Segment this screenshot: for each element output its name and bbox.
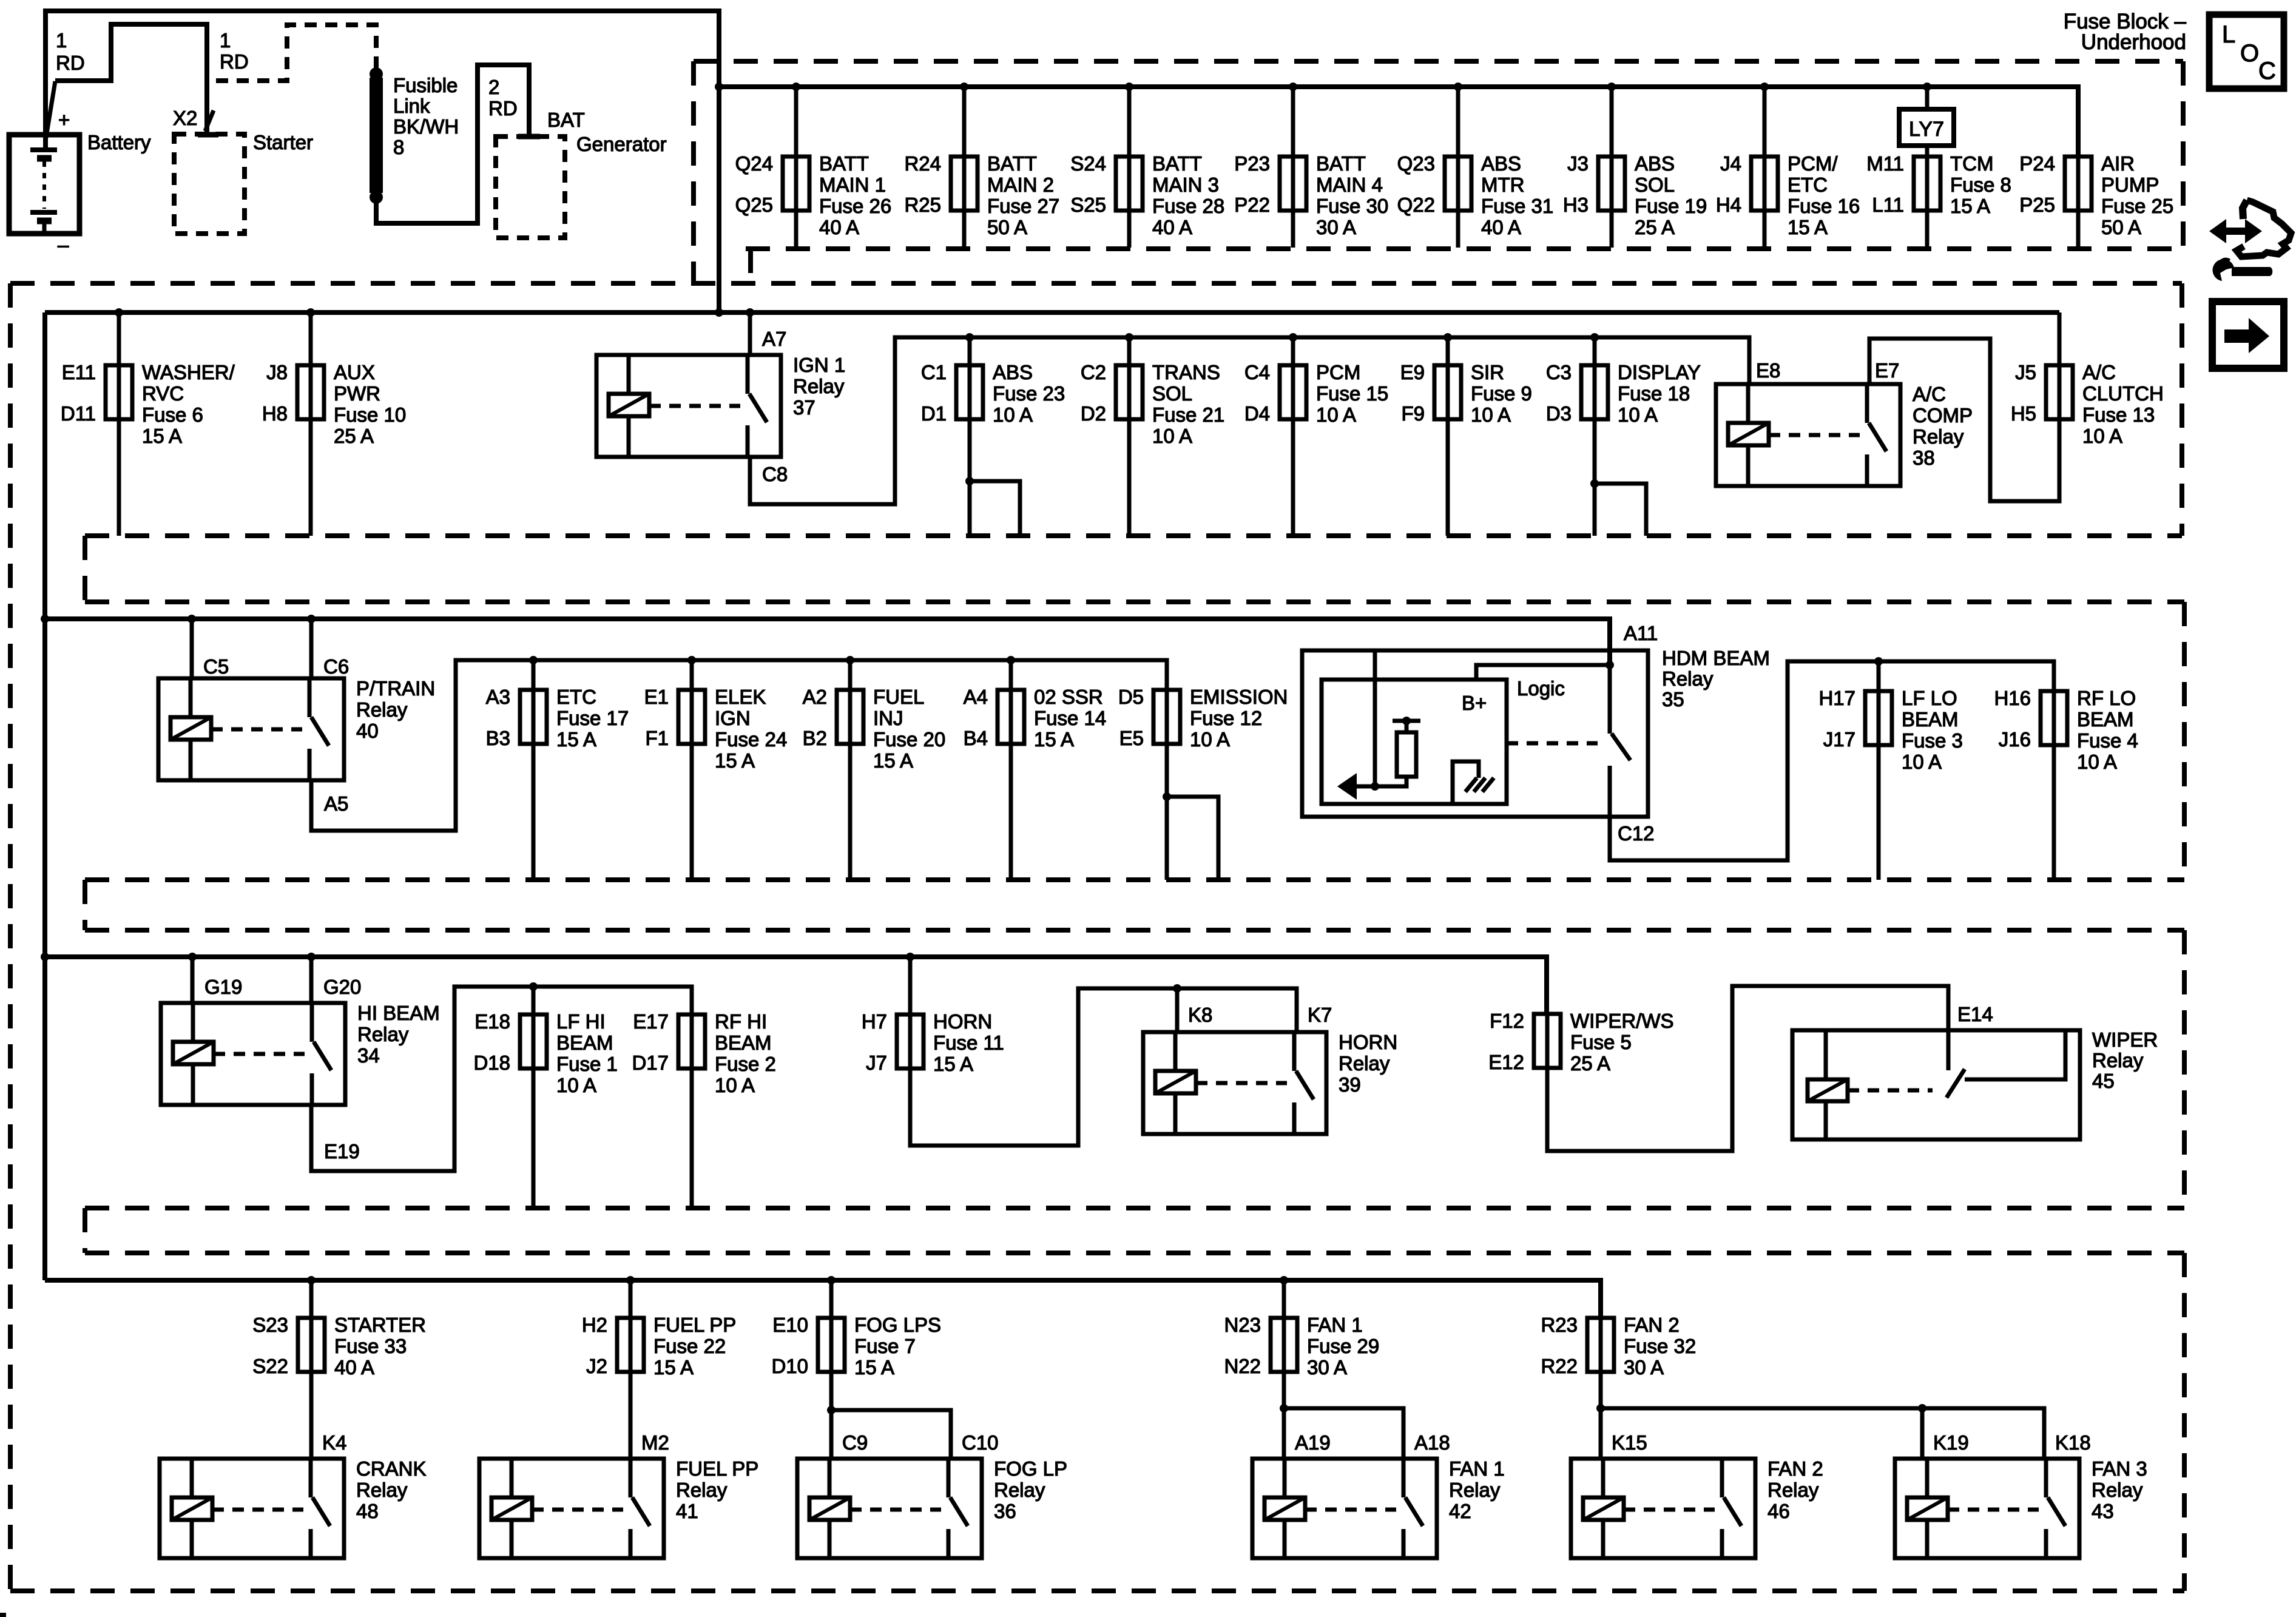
- svg-text:Fuse 2: Fuse 2: [715, 1053, 776, 1075]
- svg-text:FAN 1: FAN 1: [1307, 1314, 1363, 1336]
- svg-text:P22: P22: [1234, 194, 1270, 216]
- svg-text:HI BEAM: HI BEAM: [357, 1002, 440, 1024]
- junction row4 bus at G19: [188, 953, 197, 961]
- wire: A/C COMP relay E7 to Fuse 13 H5: [1869, 339, 2059, 501]
- wire: IGN 1 relay C8 output to row2 sub-bus: [750, 337, 1749, 504]
- wire: feed to Fuse 6 WASHER/RVC: [117, 312, 121, 365]
- wire: row3 bus drop to P/TRAIN relay C6: [309, 619, 314, 678]
- fuse Fuse 12 EMISSION: [1118, 686, 1288, 751]
- svg-text:SOL: SOL: [1152, 382, 1192, 405]
- svg-text:25 A: 25 A: [1635, 216, 1675, 238]
- svg-text:C4: C4: [1244, 361, 1270, 383]
- junction row3 bus at C6: [307, 615, 316, 623]
- svg-text:40 A: 40 A: [1152, 216, 1192, 238]
- wire: HI BEAM relay E19 output to row4 sub-bus: [311, 987, 692, 1171]
- fuse Fuse 26 BATT MAIN 1: [735, 152, 892, 238]
- svg-text:Relay: Relay: [2092, 1049, 2144, 1072]
- svg-text:BEAM: BEAM: [715, 1031, 772, 1054]
- fuse Fuse 11 HORN: [862, 1010, 1004, 1075]
- wire: row3 bus drop to P/TRAIN relay C5: [190, 619, 194, 678]
- label: Fuse Block - Underhood: [2064, 10, 2187, 54]
- svg-text:Starter: Starter: [253, 131, 313, 154]
- wire: battery positive to starter, 1 RD: [46, 24, 218, 141]
- svg-text:K19: K19: [1933, 1431, 1969, 1454]
- wire: row5 bus drop to Fuse 29 FAN 1: [1282, 1280, 1286, 1318]
- wire: Fuse 21 TRANS SOL output through boundary: [1127, 419, 1132, 536]
- relay FOG LP Relay 36: [797, 1457, 1067, 1558]
- wire: Fuse 18 DISPLAY output through boundary: [1593, 419, 1597, 536]
- svg-text:RD: RD: [220, 50, 249, 73]
- svg-text:ETC: ETC: [556, 686, 596, 708]
- wire: Fuse 10 AUX PWR output through boundary: [309, 419, 313, 536]
- junction row3 sub-bus at Fuse 20 FUEL INJ: [846, 656, 854, 664]
- dashed boundary: row3-row4 left connector: [83, 880, 87, 930]
- fuse Fuse 18 DISPLAY: [1546, 361, 1701, 426]
- svg-text:WIPER/WS: WIPER/WS: [1570, 1010, 1674, 1032]
- wire: A11 to logic module: [1476, 665, 1610, 680]
- svg-text:39: 39: [1339, 1073, 1361, 1096]
- svg-text:15 A: 15 A: [653, 1356, 694, 1379]
- svg-text:D2: D2: [1081, 402, 1106, 425]
- svg-text:E12: E12: [1488, 1051, 1524, 1073]
- wire: Fuse 9 SIR output through boundary: [1446, 419, 1450, 536]
- svg-text:CLUTCH: CLUTCH: [2082, 382, 2164, 405]
- wire: drop to FAN 3 relay K19: [1920, 1408, 1925, 1459]
- svg-text:15 A: 15 A: [1788, 216, 1828, 238]
- svg-text:A5: A5: [324, 792, 348, 815]
- wire: Fuse 23 output branch: [970, 481, 1020, 536]
- wire: feed to Fuse 9 SIR: [1446, 337, 1450, 365]
- svg-text:Relay: Relay: [994, 1479, 1045, 1501]
- svg-text:MAIN 4: MAIN 4: [1316, 174, 1383, 196]
- svg-text:50 A: 50 A: [987, 216, 1027, 238]
- svg-text:A4: A4: [964, 686, 988, 708]
- wire: branch to FOG LP relay C10: [831, 1410, 951, 1459]
- svg-text:BK/WH: BK/WH: [393, 115, 459, 138]
- svg-text:02 SSR: 02 SSR: [1034, 686, 1103, 708]
- svg-text:10 A: 10 A: [993, 403, 1033, 426]
- svg-text:Fuse 22: Fuse 22: [653, 1335, 726, 1357]
- svg-text:40 A: 40 A: [819, 216, 859, 238]
- svg-text:Fuse 30: Fuse 30: [1316, 195, 1388, 217]
- relay FAN 3 Relay 43: [1895, 1457, 2147, 1558]
- junction low-beam bus at Fuse 3: [1874, 657, 1883, 666]
- dashed boundary: fuse block row1 left edge: [691, 61, 696, 283]
- svg-text:Fuse 19: Fuse 19: [1635, 195, 1707, 217]
- svg-text:H2: H2: [582, 1314, 607, 1336]
- svg-text:10 A: 10 A: [1190, 728, 1230, 751]
- wire: battery feed box outline (top and right edges): [46, 11, 719, 312]
- svg-text:STARTER: STARTER: [334, 1314, 426, 1336]
- dashed boundary: row3 right edge: [2182, 602, 2187, 880]
- wire: row2 bus drop to Fuse 13 A/C CLUTCH: [2058, 312, 2062, 365]
- junction row2 bus at IGN 1 relay: [746, 308, 754, 317]
- HDM relay B+ feed line with left arrow: [1337, 650, 1379, 800]
- wire: feed to Fuse 15 PCM: [1291, 337, 1295, 365]
- svg-text:WASHER/: WASHER/: [142, 361, 235, 383]
- svg-text:15 A: 15 A: [715, 749, 755, 772]
- fuse Fuse 23 ABS: [921, 361, 1065, 426]
- relay HI BEAM Relay 34: [161, 1002, 440, 1105]
- svg-text:ABS: ABS: [993, 361, 1033, 383]
- svg-text:H7: H7: [862, 1010, 887, 1033]
- icon: arrow continuation box: [2212, 302, 2284, 368]
- wire: Fuse 3 output through boundary: [1877, 745, 1881, 880]
- svg-text:M2: M2: [641, 1431, 669, 1454]
- relay FAN 1 Relay 42: [1252, 1457, 1505, 1558]
- svg-text:E10: E10: [772, 1314, 808, 1336]
- svg-text:Fuse 10: Fuse 10: [334, 403, 406, 426]
- svg-text:K18: K18: [2055, 1431, 2091, 1454]
- relay HORN Relay 39: [1143, 1031, 1397, 1134]
- svg-text:Fuse 7: Fuse 7: [854, 1335, 916, 1357]
- junction row3 sub-bus at Fuse 24 ELEK IGN: [687, 656, 696, 664]
- svg-text:Relay: Relay: [356, 1479, 408, 1501]
- fuse Fuse 31 ABS MTR: [1397, 152, 1554, 238]
- junction on row1 bus at Fuse 19 ABS SOL: [1607, 83, 1616, 91]
- svg-text:J4: J4: [1720, 152, 1741, 175]
- fuse Fuse 8 TCM: [1866, 152, 2011, 217]
- svg-text:Fuse 28: Fuse 28: [1152, 195, 1224, 217]
- svg-text:15 A: 15 A: [854, 1356, 894, 1379]
- junction A11 inside HDM BEAM relay: [1606, 661, 1614, 669]
- svg-text:X2: X2: [173, 107, 197, 129]
- wire: row4 bus drop to Fuse 11 HORN: [908, 957, 913, 1014]
- junction below Fuse 12: [1163, 792, 1171, 801]
- svg-text:43: 43: [2092, 1500, 2114, 1522]
- fuse Fuse 16 PCM/ETC: [1716, 152, 1860, 238]
- junction row4 sub-bus at Fuse 1: [529, 982, 538, 991]
- svg-text:L11: L11: [1872, 194, 1904, 216]
- icon: LOC reference box: [2209, 15, 2284, 89]
- svg-text:FAN 2: FAN 2: [1624, 1314, 1680, 1336]
- svg-text:H3: H3: [1563, 194, 1589, 216]
- wire: branch to FAN 1 relay A18: [1284, 1408, 1403, 1459]
- svg-text:Relay: Relay: [1662, 667, 1714, 690]
- svg-text:A18: A18: [1414, 1431, 1450, 1454]
- junction row3 bus at C5: [187, 615, 196, 623]
- svg-text:J16: J16: [1999, 728, 2031, 751]
- svg-text:H5: H5: [2011, 402, 2036, 425]
- fuse Fuse 22 FUEL PP: [582, 1314, 737, 1379]
- svg-text:D4: D4: [1244, 402, 1270, 425]
- svg-text:P25: P25: [2019, 194, 2055, 216]
- relay HDM BEAM Relay 35: [1302, 647, 1770, 817]
- svg-text:O: O: [2240, 40, 2259, 67]
- svg-text:AIR: AIR: [2101, 152, 2135, 175]
- wire: Fuse 19 ABS SOL output through boundary: [1610, 211, 1614, 248]
- svg-text:E17: E17: [633, 1010, 669, 1033]
- wire: feed to Fuse 21 TRANS SOL: [1127, 337, 1132, 365]
- junction on row1 bus at Fuse 28 BATT MAIN 3: [1125, 83, 1133, 91]
- junction row5 bus at Fuse 7 FOG LPS: [827, 1276, 836, 1284]
- svg-text:G20: G20: [323, 976, 361, 998]
- wire: branch to FAN 3 relay K18: [1601, 1408, 2044, 1459]
- svg-text:BATT: BATT: [987, 152, 1037, 175]
- svg-text:Fuse 1: Fuse 1: [556, 1053, 618, 1075]
- svg-text:Relay: Relay: [1768, 1479, 1819, 1501]
- wire: row4 bus drop to HI BEAM relay G19: [191, 957, 195, 1003]
- svg-text:15 A: 15 A: [873, 749, 913, 772]
- svg-text:ELEK: ELEK: [715, 686, 766, 708]
- wire: Fuse 8 TCM output through boundary: [1925, 211, 1930, 248]
- svg-text:FAN 1: FAN 1: [1449, 1457, 1505, 1480]
- junction on relay-fed sub-bus at Fuse 9 SIR: [1443, 333, 1452, 342]
- fuse Fuse 30 BATT MAIN 4: [1234, 152, 1388, 238]
- svg-text:L: L: [2222, 21, 2235, 48]
- fuse Fuse 13 A/C CLUTCH: [2011, 361, 2164, 447]
- svg-text:MAIN 3: MAIN 3: [1152, 174, 1219, 196]
- svg-text:H4: H4: [1716, 194, 1741, 216]
- wire: Fuse 32 output to FAN 2 relay K15: [1599, 1372, 1603, 1459]
- svg-text:A7: A7: [762, 328, 786, 350]
- junction row3 bus / left bus: [41, 615, 49, 623]
- relay FUEL PP Relay 41: [479, 1457, 758, 1558]
- wire: Fuse 1 output through boundary: [532, 1068, 536, 1206]
- svg-text:Q23: Q23: [1397, 152, 1435, 175]
- svg-text:A11: A11: [1624, 622, 1658, 644]
- junction row5 bus at Fuse 22 FUEL PP: [626, 1276, 635, 1284]
- wire: feed to Fuse 23 ABS: [968, 337, 972, 365]
- svg-text:37: 37: [793, 396, 815, 419]
- svg-text:D11: D11: [61, 402, 96, 425]
- dashed boundary: row4 right edge: [2182, 930, 2187, 1208]
- svg-text:F9: F9: [1401, 402, 1425, 425]
- wire: Fuse 27 BATT MAIN 2 output through boundary: [962, 211, 967, 248]
- wire: Fuse 14 02 SSR output through boundary: [1009, 744, 1013, 880]
- fuse Fuse 25 AIR PUMP: [2019, 152, 2173, 238]
- svg-text:A3: A3: [486, 686, 510, 708]
- junction row4 bus / left bus: [41, 953, 49, 961]
- junction row3 sub-bus at Fuse 17 ETC: [529, 656, 538, 664]
- dashed boundary: bottom edge: [10, 1588, 2184, 1593]
- wire: Fuse 22 output to FUEL PP relay M2: [629, 1372, 633, 1459]
- svg-text:50 A: 50 A: [2101, 216, 2141, 238]
- svg-text:Fuse 21: Fuse 21: [1152, 403, 1224, 426]
- svg-text:LF LO: LF LO: [1902, 687, 1957, 709]
- svg-text:2: 2: [488, 76, 499, 98]
- dashed boundary: row2-row3 left connector: [83, 536, 87, 602]
- svg-text:BATT: BATT: [819, 152, 869, 175]
- junction at FAN 3 relay K19 branch: [1918, 1404, 1926, 1413]
- wire: Fuse 5 output to WIPER relay E14: [1547, 986, 1948, 1151]
- dashed boundary: row4 bottom edge: [85, 1206, 2184, 1210]
- svg-text:Fuse 20: Fuse 20: [873, 728, 945, 751]
- svg-text:H8: H8: [262, 402, 288, 425]
- svg-text:MAIN 1: MAIN 1: [819, 174, 886, 196]
- junction on row1 bus at Fuse 30 BATT MAIN 4: [1289, 83, 1297, 91]
- wire: feed to Fuse 18 DISPLAY: [1593, 337, 1597, 365]
- svg-text:Fuse 13: Fuse 13: [2082, 403, 2155, 426]
- dashed boundary: row4-row5 left connector: [83, 1208, 87, 1253]
- wire: Fuse 7 output to FOG LP relay C9: [829, 1372, 834, 1459]
- svg-text:HORN: HORN: [1339, 1031, 1397, 1053]
- svg-text:PWR: PWR: [334, 382, 380, 405]
- svg-text:E18: E18: [474, 1010, 510, 1033]
- svg-text:RF LO: RF LO: [2077, 687, 2136, 709]
- svg-text:BEAM: BEAM: [556, 1031, 613, 1054]
- svg-text:BAT: BAT: [547, 109, 585, 131]
- svg-text:C6: C6: [323, 655, 349, 678]
- svg-text:C5: C5: [203, 655, 229, 678]
- svg-text:FUEL PP: FUEL PP: [653, 1314, 736, 1336]
- junction below Fuse 23: [965, 477, 974, 485]
- svg-text:MTR: MTR: [1481, 174, 1524, 196]
- junction row4 bus at G20: [307, 953, 316, 961]
- svg-text:10 A: 10 A: [715, 1074, 755, 1096]
- wire: HDM BEAM relay C12 to low-beam fuse bus: [1610, 661, 2054, 860]
- svg-text:FOG LPS: FOG LPS: [854, 1314, 941, 1336]
- wire: row2 bus drop to IGN 1 relay pin A7: [748, 312, 752, 355]
- svg-text:F12: F12: [1490, 1010, 1524, 1032]
- relay IGN 1 Relay 37: [596, 354, 845, 457]
- wire: Fuse 15 PCM output through boundary: [1291, 419, 1295, 536]
- junction row3 sub-bus at Fuse 14 02 SSR: [1007, 656, 1015, 664]
- svg-text:J8: J8: [266, 361, 288, 383]
- svg-text:BATT: BATT: [1316, 152, 1366, 175]
- svg-text:15 A: 15 A: [1034, 728, 1074, 751]
- svg-text:Fuse 24: Fuse 24: [715, 728, 787, 751]
- svg-text:C10: C10: [962, 1431, 999, 1454]
- fuse Fuse 14 02 SSR: [964, 686, 1107, 751]
- svg-text:R22: R22: [1541, 1355, 1578, 1377]
- label: wire 1 RD (battery segment): [56, 29, 85, 74]
- relay FAN 2 Relay 46: [1571, 1457, 1823, 1558]
- dashed boundary: fuse block row1 bottom edge: [746, 246, 2183, 251]
- svg-text:EMISSION: EMISSION: [1190, 686, 1288, 708]
- wire: bus to LY7 to TCM fuse: [1925, 87, 1930, 109]
- svg-text:M11: M11: [1866, 152, 1904, 175]
- wire: bus drop to Fuse 31 ABS MTR: [1456, 87, 1460, 157]
- svg-text:10 A: 10 A: [1316, 403, 1356, 426]
- wire: row2 bus: [45, 310, 2059, 315]
- svg-text:35: 35: [1662, 688, 1684, 711]
- svg-text:R24: R24: [904, 152, 941, 175]
- wire: Fuse 30 BATT MAIN 4 output through boundary: [1291, 211, 1295, 248]
- wire: Fuse 6 WASHER/RVC output through boundary: [117, 419, 121, 536]
- starter (dashed outline): [174, 134, 245, 234]
- wire: sub-bus drop to Fuse 1: [532, 987, 536, 1014]
- svg-text:10 A: 10 A: [1471, 403, 1511, 426]
- svg-text:Relay: Relay: [356, 698, 408, 721]
- wire: Fuse 2 output through boundary: [690, 1068, 694, 1206]
- svg-text:Fuse 4: Fuse 4: [2077, 729, 2138, 752]
- fusible link BK/WH 8: [370, 67, 459, 204]
- svg-text:DISPLAY: DISPLAY: [1618, 361, 1701, 383]
- wire: fusible link to generator, 2 RD: [376, 65, 540, 223]
- svg-text:N23: N23: [1224, 1314, 1261, 1336]
- wire: Fuse 4 output through boundary: [2052, 745, 2056, 880]
- svg-text:Fuse 3: Fuse 3: [1902, 729, 1963, 752]
- wire: row5 bus drop to Fuse 7 FOG LPS: [829, 1280, 834, 1318]
- svg-text:S25: S25: [1070, 194, 1106, 216]
- svg-text:MAIN 2: MAIN 2: [987, 174, 1054, 196]
- svg-text:ABS: ABS: [1635, 152, 1675, 175]
- svg-text:R25: R25: [904, 194, 941, 216]
- svg-text:FAN 3: FAN 3: [2092, 1457, 2147, 1480]
- svg-text:30 A: 30 A: [1624, 1356, 1664, 1379]
- junction on row1 bus at Fuse 26 BATT MAIN 1: [792, 83, 800, 91]
- svg-text:Fuse 12: Fuse 12: [1190, 707, 1262, 729]
- svg-text:BATT: BATT: [1152, 152, 1202, 175]
- ground symbol in HDM logic module: [1453, 761, 1494, 804]
- svg-text:INJ: INJ: [873, 707, 903, 729]
- fuse Fuse 6 WASHER/RVC: [61, 361, 235, 447]
- svg-text:38: 38: [1913, 447, 1935, 469]
- svg-text:10 A: 10 A: [1618, 403, 1658, 426]
- junction below Fuse 29: [1280, 1404, 1288, 1413]
- svg-text:N22: N22: [1224, 1355, 1261, 1377]
- svg-text:10 A: 10 A: [2077, 751, 2117, 773]
- svg-text:C12: C12: [1618, 822, 1655, 845]
- svg-text:J17: J17: [1823, 728, 1855, 751]
- svg-text:B4: B4: [964, 727, 988, 749]
- generator (dashed outline): [496, 137, 565, 238]
- svg-text:SIR: SIR: [1471, 361, 1504, 383]
- svg-text:J3: J3: [1567, 152, 1589, 175]
- svg-text:Fusible: Fusible: [393, 74, 458, 96]
- wire: Fuse 26 BATT MAIN 1 output through boundary: [794, 211, 799, 248]
- svg-text:H17: H17: [1818, 687, 1855, 709]
- svg-text:25 A: 25 A: [334, 425, 374, 447]
- svg-text:RD: RD: [56, 52, 85, 74]
- wire: low-beam bus drop to Fuse 3: [1877, 661, 1881, 691]
- svg-text:40: 40: [356, 720, 379, 742]
- junction below Fuse 32: [1596, 1404, 1605, 1413]
- svg-text:G19: G19: [204, 976, 242, 998]
- wire: bus drop to Fuse 19 ABS SOL: [1610, 87, 1614, 157]
- wire: row5 bus drop to Fuse 22 FUEL PP: [629, 1280, 633, 1318]
- fuse Fuse 10 AUX PWR: [262, 361, 406, 447]
- junction row1 bus / feed from battery box: [715, 83, 723, 91]
- svg-text:C2: C2: [1081, 361, 1106, 383]
- svg-text:RD: RD: [488, 97, 518, 120]
- junction row2 bus / battery box feed: [715, 308, 723, 317]
- junction on relay-fed sub-bus at Fuse 21 TRANS SOL: [1125, 333, 1133, 342]
- svg-text:Q24: Q24: [735, 152, 773, 175]
- wire: row4 bus: [45, 957, 1547, 1014]
- svg-text:E8: E8: [1756, 359, 1780, 382]
- svg-text:40 A: 40 A: [1481, 216, 1521, 238]
- wire: Fuse 29 output to FAN 1 relay A19: [1282, 1372, 1286, 1459]
- wire: Fuse 28 BATT MAIN 3 output through boundary: [1127, 211, 1132, 248]
- fuse Fuse 7 FOG LPS: [771, 1314, 941, 1379]
- svg-text:C3: C3: [1546, 361, 1572, 383]
- svg-text:S24: S24: [1070, 152, 1106, 175]
- svg-text:K8: K8: [1188, 1004, 1212, 1026]
- relay P/TRAIN Relay 40: [158, 677, 435, 780]
- svg-text:IGN 1: IGN 1: [793, 354, 845, 376]
- relay CRANK Relay 48: [160, 1457, 427, 1558]
- dashed boundary: row1-row2 connector: [748, 249, 753, 283]
- wire: sub-bus drop to Fuse 14 02 SSR: [1009, 660, 1013, 690]
- svg-text:Fuse 9: Fuse 9: [1471, 382, 1532, 405]
- fuse Fuse 24 ELEK IGN: [644, 686, 788, 772]
- fuse Fuse 33 STARTER: [252, 1314, 426, 1379]
- svg-text:K4: K4: [322, 1431, 346, 1454]
- svg-text:R23: R23: [1541, 1314, 1578, 1336]
- relay A/C COMP Relay 38: [1716, 383, 1973, 486]
- fuse Fuse 29 FAN 1: [1224, 1314, 1379, 1379]
- svg-text:8: 8: [393, 136, 404, 158]
- svg-text:A2: A2: [803, 686, 827, 708]
- svg-text:FAN 2: FAN 2: [1768, 1457, 1823, 1480]
- svg-text:IGN: IGN: [715, 707, 751, 729]
- svg-text:P/TRAIN: P/TRAIN: [356, 677, 435, 700]
- svg-text:Relay: Relay: [2092, 1479, 2143, 1501]
- svg-text:Fuse 27: Fuse 27: [987, 195, 1059, 217]
- wire: Fuse 18 output branch: [1595, 484, 1646, 536]
